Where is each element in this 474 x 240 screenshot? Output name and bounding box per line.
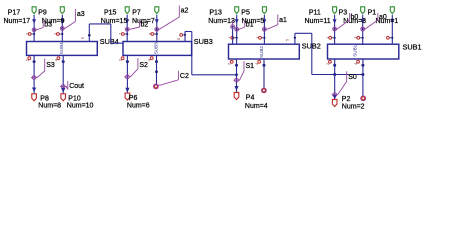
svg-text:a3: a3 (77, 11, 85, 18)
svg-text:P13: P13 (209, 9, 222, 16)
svg-text:Num=4: Num=4 (245, 103, 268, 110)
svg-text:P4: P4 (246, 94, 255, 101)
svg-text:SUB1: SUB1 (403, 43, 422, 52)
svg-text:SUB3: SUB3 (194, 37, 213, 46)
svg-text:P3: P3 (339, 9, 348, 16)
svg-text:P1: P1 (368, 9, 377, 16)
svg-text:b0: b0 (351, 14, 359, 21)
svg-text:b3: b3 (44, 22, 52, 29)
svg-text:b2: b2 (141, 21, 149, 28)
svg-text:P5: P5 (241, 9, 250, 16)
svg-text:P17: P17 (8, 9, 21, 16)
svg-text:SUB1: SUB1 (353, 44, 358, 56)
svg-text:P8: P8 (40, 95, 49, 102)
svg-text:a1: a1 (279, 17, 287, 24)
svg-text:SUB4: SUB4 (59, 42, 64, 54)
svg-text:Num=8: Num=8 (38, 103, 61, 110)
svg-text:Cout: Cout (69, 83, 84, 90)
svg-text:Num=13: Num=13 (208, 18, 235, 25)
svg-text:S1: S1 (246, 63, 255, 70)
svg-text:SUB2: SUB2 (259, 45, 264, 57)
svg-text:P2: P2 (342, 96, 351, 103)
svg-text:Num=17: Num=17 (4, 18, 31, 25)
svg-text:Num=10: Num=10 (67, 103, 94, 110)
svg-text:P7: P7 (132, 9, 141, 16)
svg-text:Num=6: Num=6 (127, 102, 150, 109)
svg-text:P11: P11 (309, 9, 321, 16)
svg-text:P15: P15 (104, 9, 117, 16)
svg-text:S3: S3 (46, 62, 55, 69)
svg-text:a2: a2 (181, 8, 189, 15)
svg-text:S2: S2 (139, 62, 148, 69)
svg-text:P6: P6 (129, 95, 138, 102)
svg-text:a0: a0 (379, 14, 387, 21)
svg-text:b1: b1 (246, 21, 254, 28)
svg-text:Num=11: Num=11 (305, 18, 331, 25)
svg-text:SUB4: SUB4 (100, 37, 119, 46)
svg-text:SUB3: SUB3 (153, 42, 158, 54)
svg-text:C2: C2 (180, 73, 189, 80)
svg-text:Num=2: Num=2 (342, 104, 365, 111)
svg-text:S0: S0 (348, 74, 357, 81)
svg-text:P9: P9 (38, 9, 47, 16)
svg-text:P10: P10 (68, 95, 81, 102)
